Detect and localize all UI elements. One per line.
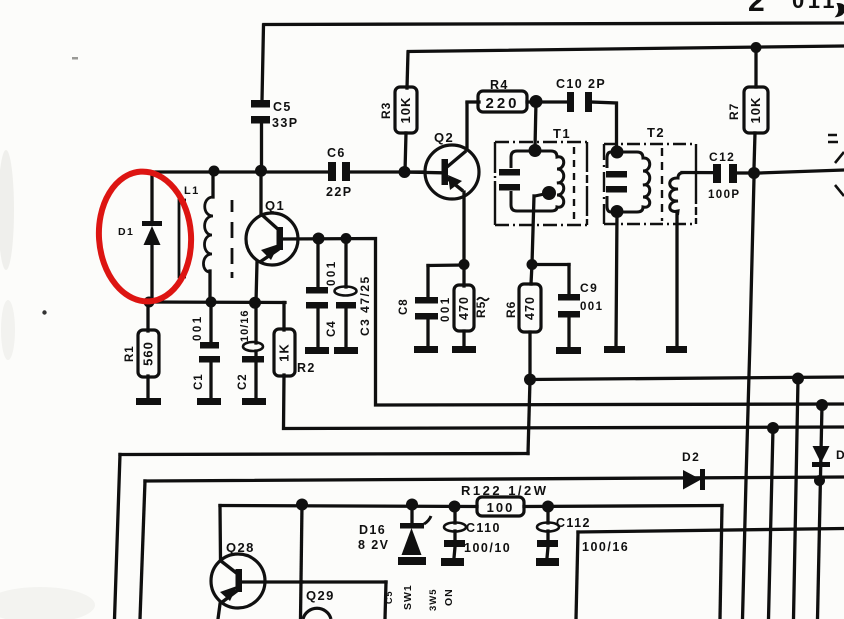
- wire C10 left lead: [536, 100, 567, 103]
- wire corner x386 down: [385, 582, 386, 619]
- svg-text:3W5: 3W5: [428, 588, 439, 611]
- wire T1 bottom wire to node: [532, 196, 534, 264]
- node T1 top: [529, 144, 542, 157]
- svg-text:C1: C1: [193, 373, 205, 390]
- diode D3 partial right: [812, 446, 830, 467]
- node rail-C5-Q1: [255, 165, 267, 177]
- wire C5 bottom stem: [260, 124, 263, 168]
- svg-text:33P: 33P: [272, 116, 298, 130]
- svg-text:C5: C5: [384, 590, 394, 604]
- T1 internal capacitor: [499, 169, 520, 176]
- inductor L1: [179, 197, 232, 278]
- ground C112: [536, 558, 559, 566]
- node line3 C110: [449, 501, 461, 513]
- svg-text:100P: 100P: [708, 189, 740, 201]
- svg-text:560: 560: [141, 341, 156, 366]
- wire R6 node to corner lineA: [528, 380, 530, 454]
- wire C1 leads: [209, 302, 212, 398]
- svg-text:D2: D2: [682, 450, 700, 464]
- wire rail right of node to edge: [759, 170, 844, 173]
- wire R2 bottom lead and bus 3: [284, 375, 844, 429]
- wire right vertical x773: [769, 428, 774, 619]
- node R4-C10: [530, 95, 543, 108]
- node T2 top: [611, 146, 622, 157]
- node rail2 C1: [206, 297, 217, 308]
- resistor R2: [274, 329, 295, 376]
- svg-text:100/16: 100/16: [582, 540, 629, 554]
- svg-text:100/10: 100/10: [464, 541, 511, 555]
- wire R4 right lead: [527, 100, 536, 103]
- node dots: [144, 42, 829, 513]
- diode D2: [683, 469, 705, 490]
- svg-text:001: 001: [440, 295, 452, 322]
- diode D1: [142, 221, 162, 245]
- svg-text:T1: T1: [553, 126, 571, 141]
- wire L1 top link: [211, 172, 214, 197]
- wire Q2 emitter down: [462, 192, 465, 264]
- wire R5 leads: [462, 264, 465, 346]
- scan smudge left edge: [0, 150, 14, 270]
- node T1 tap: [542, 186, 556, 200]
- wire line B inner vertical: [140, 481, 145, 619]
- svg-text:R7: R7: [727, 103, 741, 120]
- transistor Q1: [246, 213, 298, 265]
- speck left middle: [42, 310, 46, 314]
- node Q2 emitter junction: [459, 259, 470, 270]
- wire Q2 collector riser: [465, 103, 468, 150]
- wire C9 body leads: [567, 265, 570, 348]
- node bus1 x798: [792, 373, 804, 385]
- transformer T1: [495, 142, 587, 225]
- capacitor C4: [306, 287, 328, 294]
- transformer T2: [604, 144, 696, 224]
- svg-text:011: 011: [792, 0, 838, 13]
- wire C3 leads: [344, 239, 347, 347]
- wire ground rail y302: [146, 300, 285, 304]
- ground C9: [556, 347, 581, 354]
- wire L1 bottom link: [208, 271, 211, 301]
- resistor R4: [478, 91, 527, 112]
- svg-text:C9: C9: [580, 281, 598, 295]
- transistor Q28: [211, 554, 265, 608]
- transistor QX partial right edge: [828, 135, 844, 196]
- red annotation ellipse around D1: [95, 168, 196, 304]
- svg-text:C2: C2: [237, 373, 249, 390]
- svg-text:Q1: Q1: [265, 198, 285, 213]
- svg-text:T2: T2: [647, 125, 665, 140]
- wire T2 secondary bottom to ground: [675, 214, 678, 346]
- node bus3 x773: [767, 422, 779, 434]
- wire C110 stem: [454, 507, 455, 559]
- node line3 x302: [296, 499, 308, 511]
- node T2 primary top: [611, 146, 624, 159]
- title Z-0112 partial top: [748, 0, 844, 18]
- node bus1 left: [524, 374, 536, 386]
- svg-text:R4: R4: [490, 78, 509, 92]
- wire main rail left (node A): [148, 170, 329, 173]
- svg-text:C12: C12: [709, 150, 735, 164]
- capacitor C6: [328, 162, 336, 181]
- wire R2 top lead: [282, 303, 285, 331]
- svg-text:R122 1/2W: R122 1/2W: [461, 483, 549, 498]
- wire T2 primary bottom to ground: [616, 212, 617, 346]
- resistor R6: [519, 284, 541, 332]
- svg-text:470: 470: [523, 296, 537, 320]
- svg-text:100: 100: [487, 500, 515, 515]
- svg-text:8 2V: 8 2V: [358, 538, 389, 552]
- T2 internal capacitor: [606, 171, 627, 178]
- ground C8: [414, 346, 438, 353]
- capacitor C10: [567, 92, 574, 112]
- ground C2: [242, 398, 266, 405]
- wire main rail right of C6: [350, 170, 424, 173]
- transistor Q29 partial arc: [303, 608, 331, 619]
- wire right vertical x798: [794, 379, 799, 619]
- wire D1 branch: [150, 172, 153, 300]
- wire Q28 collector drop: [218, 506, 222, 561]
- svg-text:001: 001: [580, 301, 603, 313]
- scan smudge bottom left corner: [0, 587, 95, 619]
- resistor R5: [454, 285, 474, 331]
- wire R7 top lead: [754, 48, 757, 88]
- diode D16 zener: [400, 516, 431, 555]
- svg-text:Q28: Q28: [226, 540, 255, 555]
- wire C12 right lead: [737, 171, 749, 174]
- svg-text:10K: 10K: [398, 97, 413, 124]
- wire R6 leads: [530, 264, 532, 379]
- svg-text:220: 220: [485, 95, 519, 112]
- node line3 C112: [542, 501, 554, 513]
- node rail2 C2-Q1: [249, 297, 261, 309]
- scan smudge left lower: [1, 300, 15, 360]
- capacitor C1: [200, 342, 219, 349]
- wire C9 branch: [532, 263, 569, 266]
- wire Q28 base run: [242, 580, 302, 583]
- node bus2 x822: [816, 399, 828, 411]
- transistor Q2: [425, 145, 479, 199]
- svg-text:C110: C110: [466, 521, 501, 535]
- wire C4 leads: [316, 239, 319, 347]
- wire R4 left lead: [467, 100, 479, 103]
- svg-text:SW1: SW1: [402, 584, 414, 610]
- ground R1: [136, 398, 161, 405]
- svg-text:R3: R3: [379, 102, 393, 119]
- svg-text:C4: C4: [326, 320, 338, 337]
- svg-text:D16: D16: [359, 523, 386, 537]
- svg-text:C3 47/25: C3 47/25: [358, 275, 372, 336]
- T2 secondary winding: [670, 173, 684, 216]
- svg-text:470: 470: [457, 296, 471, 320]
- label R5 squiggle: [477, 298, 489, 301]
- svg-text:D1: D1: [118, 226, 134, 238]
- wire Q28 emitter out: [218, 604, 220, 619]
- svg-text:001: 001: [326, 259, 338, 286]
- capacitor C110 electrolytic: [444, 523, 466, 532]
- svg-text:R6: R6: [504, 301, 518, 318]
- wire right vertical x822 with D3: [818, 405, 823, 619]
- svg-text:1K: 1K: [277, 343, 292, 362]
- node rail-L1: [209, 166, 220, 177]
- ground T2 secondary: [666, 346, 687, 353]
- resistor R1: [138, 330, 159, 377]
- wire R7 node long vertical: [743, 178, 755, 619]
- wire bus 1: [530, 377, 844, 380]
- wire line 3 horizontal: [220, 506, 722, 507]
- ground C1: [197, 398, 221, 405]
- wire node drop x302: [301, 505, 303, 619]
- node lineB x819: [814, 475, 825, 486]
- svg-text:10K: 10K: [748, 97, 763, 124]
- speck top left: [72, 57, 78, 60]
- node T1-R6-C9 junction: [527, 259, 538, 270]
- wire line B with D2: [145, 477, 844, 481]
- wire C112 stem: [547, 507, 548, 559]
- svg-text:22P: 22P: [326, 185, 352, 199]
- ground R5: [452, 346, 476, 353]
- wire T1 top riser: [535, 102, 536, 149]
- svg-text:Q29: Q29: [306, 588, 335, 603]
- wire second supply line: [409, 46, 844, 52]
- capacitor C112 electrolytic: [537, 523, 559, 532]
- wire R3 top lead: [407, 52, 408, 88]
- svg-text:C6: C6: [327, 146, 346, 160]
- ground T2 primary: [604, 346, 625, 353]
- wire line A horizontal: [120, 454, 528, 455]
- wire C2 leads: [254, 303, 257, 398]
- node C3 top: [341, 233, 352, 244]
- resistor R122: [477, 497, 524, 516]
- resistor R7: [744, 87, 768, 133]
- svg-text:R5: R5: [474, 301, 488, 318]
- svg-text:D: D: [836, 448, 844, 462]
- wire line 3 right corner down: [720, 506, 722, 619]
- wire D16 top lead: [410, 505, 413, 523]
- capacitor C5: [251, 100, 270, 108]
- wire C8 body leads: [426, 266, 429, 347]
- resistor R3: [395, 87, 417, 133]
- node T2 primary bottom: [611, 205, 624, 218]
- svg-text:10/16: 10/16: [239, 309, 251, 342]
- svg-text:L1: L1: [184, 185, 200, 197]
- ground C4: [305, 347, 329, 354]
- svg-text:2: 2: [748, 0, 767, 18]
- svg-text:C112: C112: [556, 516, 591, 530]
- capacitor C9: [558, 294, 580, 301]
- ground C3: [334, 347, 358, 354]
- wire line A outer vertical: [115, 455, 121, 619]
- node R7 top: [751, 42, 762, 53]
- node line3 D16: [406, 499, 418, 511]
- capacitor C8: [415, 297, 438, 304]
- wire Q1 base to node then down to bus 2: [283, 239, 844, 406]
- capacitor C2 electrolytic: [243, 342, 263, 351]
- wire Q2 base lead: [405, 170, 441, 174]
- svg-text:C10 2P: C10 2P: [556, 77, 606, 91]
- svg-text:R1: R1: [124, 345, 136, 362]
- wire Q1 emitter down: [256, 262, 257, 303]
- wire C8 branch: [428, 263, 464, 267]
- wire block box left edge: [576, 532, 578, 619]
- svg-text:C5: C5: [273, 100, 292, 114]
- wire C5 top riser: [262, 25, 264, 101]
- svg-text:Q2: Q2: [434, 130, 454, 145]
- wire T2 secondary top lead: [682, 171, 713, 174]
- svg-text:R2: R2: [297, 361, 316, 375]
- svg-text:001: 001: [192, 314, 204, 341]
- capacitor C3 electrolytic: [335, 287, 357, 296]
- node R7-C12: [748, 167, 760, 179]
- ground C110: [441, 558, 464, 566]
- ground D16: [398, 557, 426, 565]
- wire Q1 collector riser: [259, 172, 262, 214]
- wire R7 bottom lead: [754, 133, 755, 168]
- wire R1 leads: [146, 302, 149, 398]
- svg-text:C8: C8: [398, 298, 410, 315]
- wire block box top edge: [578, 529, 844, 533]
- wire C10 right lead to T2 top: [592, 102, 617, 148]
- capacitor C12: [713, 164, 721, 183]
- wire top supply line: [264, 23, 844, 25]
- node rail2 R1: [144, 297, 155, 308]
- svg-text:ON: ON: [443, 588, 455, 606]
- wire R3 bottom lead: [405, 133, 406, 172]
- wire base run right segment: [302, 580, 386, 583]
- node Q1 base: [313, 233, 325, 245]
- node rail-R3: [399, 166, 411, 178]
